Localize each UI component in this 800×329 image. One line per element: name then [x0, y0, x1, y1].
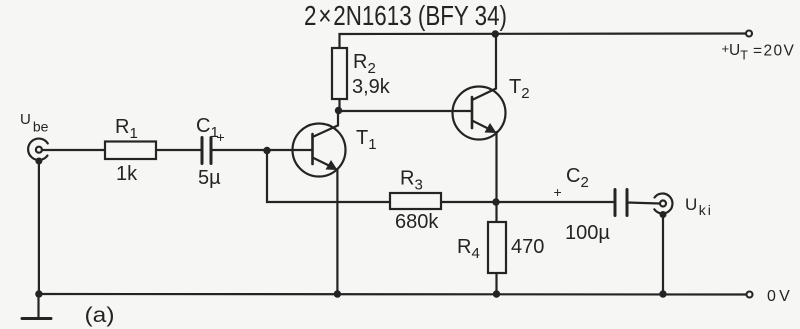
svg-text:Ube: Ube — [20, 111, 49, 135]
node feedback tap — [263, 147, 270, 154]
svg-text:3,9k: 3,9k — [352, 76, 391, 98]
resistor R1 — [105, 142, 156, 160]
transistor T1 — [293, 111, 346, 177]
svg-text:C2: C2 — [566, 165, 589, 191]
svg-text:=20V: =20V — [753, 43, 795, 60]
svg-text:(a): (a) — [85, 304, 115, 327]
resistor R4 — [488, 222, 506, 273]
node emitter T2 / R4 — [492, 198, 499, 205]
wire bottom rail — [39, 293, 747, 296]
node below Uki — [660, 211, 667, 218]
wire node to C2 — [496, 201, 615, 203]
svg-text:T1: T1 — [356, 127, 377, 153]
svg-text:+: + — [722, 41, 730, 56]
svg-text:470: 470 — [511, 236, 544, 258]
node below Ube — [35, 158, 42, 165]
svg-text:2 × 2N1613 (BFY 34): 2 × 2N1613 (BFY 34) — [304, 0, 507, 31]
terminal 0V — [747, 292, 753, 298]
wire node A to T2 base — [339, 110, 473, 112]
wire R2 bottom lead — [338, 99, 340, 111]
node top rail / T2 collector junction — [492, 30, 499, 37]
ground — [22, 294, 51, 319]
wire R4 bottom lead — [495, 273, 497, 294]
svg-text:T2: T2 — [509, 76, 530, 102]
wire feedback down — [267, 151, 390, 203]
wire Ube to R1 — [42, 149, 105, 151]
resistor R2 — [332, 48, 347, 99]
node bottom left — [35, 290, 42, 297]
svg-text:R3: R3 — [400, 168, 423, 194]
svg-text:1k: 1k — [116, 163, 138, 185]
wire T2 emitter down — [495, 132, 497, 202]
node A collector T1 / base T2 — [335, 107, 342, 114]
svg-text:R2: R2 — [353, 51, 376, 77]
terminal +UT — [746, 31, 752, 37]
svg-text:C1: C1 — [196, 115, 219, 141]
resistor R3 — [390, 193, 441, 209]
svg-text:+: + — [554, 184, 562, 200]
wire Uki down to rail — [662, 215, 664, 295]
svg-text:+: + — [217, 129, 225, 145]
svg-text:R4: R4 — [457, 236, 480, 262]
svg-text:Uki: Uki — [685, 195, 713, 218]
transistor T2 — [453, 34, 506, 140]
connector Uki — [654, 194, 672, 214]
wire C2 to Uki — [627, 203, 660, 204]
svg-text:0 V: 0 V — [767, 288, 790, 305]
wire T1 emitter down — [336, 169, 338, 294]
connector Ube — [28, 139, 48, 160]
svg-text:100µ: 100µ — [565, 222, 610, 244]
svg-text:680k: 680k — [395, 211, 439, 233]
node Uki on rail — [659, 290, 666, 297]
node T1 emitter on rail — [334, 290, 341, 297]
wire top rail — [340, 34, 746, 49]
svg-text:5µ: 5µ — [198, 167, 221, 189]
wire R4 top lead — [495, 202, 497, 222]
wire R1 to C1 — [156, 149, 202, 151]
capacitor C1 — [202, 138, 211, 164]
svg-text:R1: R1 — [115, 116, 138, 142]
wire C1 to T1 base — [211, 149, 313, 151]
capacitor C2 — [615, 190, 627, 216]
wire Ube down to rail — [38, 161, 40, 294]
svg-text:UT: UT — [729, 42, 748, 63]
wire R3 to node — [441, 201, 496, 203]
node R4 on rail — [493, 290, 500, 297]
